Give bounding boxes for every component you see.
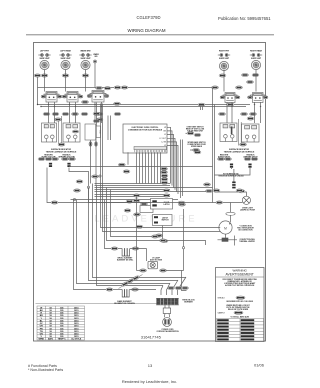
- wire label: [133, 199, 140, 202]
- wire label: [76, 180, 83, 183]
- svg-text:SURF UNIT: SURF UNIT: [80, 58, 91, 60]
- wire label: [194, 133, 201, 136]
- svg-text:CORDON D'ALIMENTATION: CORDON D'ALIMENTATION: [156, 330, 179, 333]
- wire right ind B return: [214, 168, 250, 175]
- wire gap drop right A: [238, 119, 240, 146]
- wire label: [244, 157, 251, 160]
- wire switch to indicator: [231, 102, 233, 123]
- wire staircase to bake: [74, 200, 107, 290]
- svg-text:LAMPE DU FOUR: LAMPE DU FOUR: [240, 209, 256, 212]
- warning sample oval: [234, 311, 243, 314]
- svg-text:LEFT REAR: LEFT REAR: [60, 50, 71, 53]
- wire label: [152, 235, 159, 238]
- EOC right pin labels: [159, 127, 166, 147]
- wire top right drop B: [202, 105, 204, 110]
- wire switch to indicator: [54, 102, 56, 123]
- wire staircase bus4: [97, 186, 164, 286]
- svg-text:SAMPLE: SAMPLE: [218, 312, 226, 315]
- wire label: [219, 74, 226, 77]
- diagram border frame: [34, 43, 266, 342]
- svg-text:UL STYLE: UL STYLE: [71, 338, 82, 340]
- wire fan to limiter: [225, 234, 227, 238]
- label power cord: [156, 329, 179, 333]
- connector ellipse symbol: [226, 212, 235, 215]
- svg-text:LEFT FRT: LEFT FRT: [40, 51, 50, 53]
- wire label: [175, 286, 182, 289]
- svg-text:* Non-Illustrated Parts: * Non-Illustrated Parts: [28, 368, 63, 372]
- wire label: [212, 86, 219, 89]
- surface unit control switch left front: [40, 60, 49, 69]
- wire label: [96, 118, 103, 121]
- wire label: [194, 151, 201, 154]
- wire label: [247, 80, 254, 83]
- wire staircase mid: [111, 190, 161, 237]
- label broil element: [117, 258, 134, 262]
- label red/orn right A: [218, 154, 231, 158]
- diagonal wire label: [132, 275, 140, 281]
- junction dots on buses: [37, 104, 261, 107]
- wire S3 left drop: [96, 103, 98, 127]
- wire from control switch: [85, 70, 87, 92]
- convection fan thermal limiter F1: [218, 236, 238, 246]
- wire label: [250, 112, 257, 115]
- svg-text:DE CONVECTION: DE CONVECTION: [238, 230, 253, 232]
- wire switch to indicator: [94, 102, 96, 123]
- wire label: [206, 189, 213, 192]
- label warm indicator: [93, 53, 99, 58]
- wire diag 4: [161, 286, 163, 296]
- wire label: [218, 157, 225, 160]
- label surface unit left front line2: [39, 58, 50, 60]
- wire label: [121, 86, 128, 89]
- wire label: [238, 190, 245, 193]
- label red/blk left B: [58, 154, 75, 158]
- wire label: [227, 103, 234, 106]
- label surface unit right rear outer line1: [250, 50, 262, 53]
- wire label: [41, 74, 48, 77]
- resistor R1 vertical: [96, 126, 100, 138]
- warning text block 1: [223, 279, 258, 287]
- warning serial oval: [236, 296, 245, 299]
- label speed bake switch: [187, 141, 206, 148]
- label latch switch: [161, 217, 169, 222]
- infinite switch S2: [62, 92, 83, 103]
- wire EOC harness drop: [151, 152, 153, 183]
- junction door latch net: [182, 247, 184, 249]
- connector right indicator: [230, 164, 233, 168]
- surface unit control switch right rear outer: [251, 60, 260, 69]
- wire latch net to lamp: [183, 249, 185, 271]
- wire label: [179, 203, 186, 206]
- wire label: [240, 143, 247, 146]
- indicator lamp oval inside box2: [72, 130, 78, 133]
- wire EOC pin stub: [167, 142, 177, 192]
- wire label: [204, 183, 211, 186]
- warning box outline: [216, 268, 265, 342]
- svg-text:13: 13: [148, 363, 153, 368]
- wire diag 3: [167, 283, 171, 295]
- wire switch to indicator: [69, 102, 71, 123]
- wire label: [82, 100, 89, 103]
- wire EOC pin stub: [167, 146, 178, 195]
- wire label: [247, 117, 254, 120]
- label oven vent switch: [186, 127, 205, 133]
- svg-text:M: M: [224, 227, 227, 231]
- wire bottom long run: [36, 303, 161, 305]
- wire label: [82, 74, 89, 77]
- svg-text:ELEMENT DE CUISSON: ELEMENT DE CUISSON: [114, 303, 135, 305]
- warning text block 2: [226, 305, 250, 311]
- warning table dark cells: [217, 319, 254, 340]
- header rule: [26, 34, 274, 36]
- svg-text:W: W: [164, 127, 166, 129]
- wire from control switch: [223, 70, 225, 92]
- surface unit control switch left rear: [61, 60, 70, 69]
- wire gap drop left B: [61, 116, 63, 146]
- indicator vertical strip inside box3: [231, 127, 233, 135]
- element symbol left front: [38, 54, 50, 57]
- wire vent oval stub: [186, 132, 188, 134]
- junction resistor net: [99, 175, 101, 177]
- element symbol left rear: [59, 54, 71, 57]
- wire label: [118, 163, 125, 166]
- svg-text:RIGHT FRT: RIGHT FRT: [219, 51, 230, 53]
- wire EOC pin stub: [167, 138, 175, 190]
- wire clock pin B: [95, 138, 97, 143]
- wire label: [160, 239, 167, 242]
- svg-text:Rendered by LeadVenture, Inc.: Rendered by LeadVenture, Inc.: [122, 379, 177, 384]
- wire label: [193, 148, 200, 151]
- wire switch to indicator: [48, 102, 50, 123]
- svg-text:TEMOIN LUMINEUX DE SURFACE: TEMOIN LUMINEUX DE SURFACE: [46, 150, 77, 153]
- svg-text:SURF UNIT: SURF UNIT: [39, 58, 50, 60]
- wire label: [178, 201, 185, 204]
- wire color table text: [38, 307, 81, 340]
- wire label: [161, 181, 168, 184]
- svg-text:Publication No: 5995457651: Publication No: 5995457651: [218, 16, 271, 21]
- wire label: [213, 189, 220, 192]
- label surface unit right front line1: [219, 51, 230, 53]
- convection fan motor M1: [219, 221, 232, 234]
- wire label: [236, 86, 243, 89]
- wire harness run: [95, 187, 213, 189]
- wire right drop A: [180, 140, 182, 199]
- wire label: [216, 201, 223, 204]
- warning text line 2: [231, 315, 250, 318]
- svg-text:SWITCH: SWITCH: [161, 220, 169, 222]
- connector left indicator B: [67, 163, 70, 167]
- wire label: [55, 118, 62, 121]
- wire label: [72, 112, 79, 115]
- svg-text:TEMP°C: TEMP°C: [58, 338, 67, 340]
- surface indicator light box left A: [42, 123, 57, 142]
- label surface unit right rear outer line2: [251, 58, 262, 60]
- wire staircase bus2: [89, 187, 179, 280]
- wire right main drop: [212, 88, 214, 203]
- svg-text:CGLEF379D: CGLEF379D: [137, 15, 161, 20]
- wire label: [114, 86, 121, 89]
- wire top right drop: [200, 105, 202, 110]
- wire gap drop left A: [58, 121, 60, 146]
- infinite switch S1: [41, 92, 62, 103]
- wire EOC pin stub: [167, 135, 174, 188]
- svg-text:LATCH: LATCH: [164, 203, 171, 206]
- power cord plug: [163, 318, 172, 327]
- wire label: [163, 194, 170, 197]
- wire label: [133, 194, 140, 197]
- label oven light: [240, 208, 256, 212]
- wire EOC harness drop: [145, 152, 147, 183]
- label hot surface indicator: [218, 173, 244, 178]
- wire from control switch: [65, 70, 67, 92]
- label surface indicator lights left: [46, 148, 77, 153]
- wire label: [69, 157, 76, 160]
- label surface indicator lights right: [224, 148, 255, 153]
- wire label: [161, 178, 168, 181]
- diagonal wire label: [121, 281, 129, 287]
- wire harness run: [95, 191, 213, 193]
- wire broil left stub: [118, 248, 122, 250]
- wire staircase bus1: [93, 184, 187, 278]
- wire oven light top feed: [214, 191, 238, 193]
- relay box K1: [140, 206, 153, 213]
- wire label: [161, 174, 168, 177]
- svg-text:ASSY IN OVEN: ASSY IN OVEN: [150, 258, 163, 261]
- warning box title: [226, 269, 254, 277]
- wire clock out A: [90, 146, 92, 183]
- wire label: [132, 247, 139, 250]
- svg-text:SURF UNIT: SURF UNIT: [251, 58, 262, 60]
- wire staircase broil left: [105, 200, 112, 249]
- wire indicator drop: [233, 169, 235, 182]
- svg-text:AWG: AWG: [48, 337, 53, 340]
- wire indicator link across: [69, 166, 213, 168]
- wire label: [81, 112, 88, 115]
- svg-text:DISCONNECT POWER BEFORE SERVIC: DISCONNECT POWER BEFORE SERVICING: [223, 279, 258, 281]
- wire label: [161, 239, 168, 242]
- wire convection feed upper: [103, 104, 221, 232]
- wire indicator return left: [47, 168, 152, 203]
- door latch switch box lower: [153, 215, 173, 226]
- label surface unit left front line1: [40, 51, 50, 53]
- wire stub right ind A: [231, 168, 233, 169]
- surface indicator light box right B: [242, 124, 260, 142]
- label convection fan: [237, 226, 254, 232]
- wire harness run: [95, 189, 171, 191]
- wire switch to indicator: [260, 102, 262, 123]
- wire staircase bus3: [77, 200, 171, 284]
- wire lamp right: [166, 270, 183, 272]
- wire ellipse to fan: [230, 215, 232, 222]
- wire label: [106, 288, 113, 291]
- warning text line: [226, 301, 254, 303]
- wire label: [52, 112, 59, 115]
- svg-text:SERIAL#: SERIAL#: [218, 297, 225, 300]
- wire diag 2: [172, 280, 178, 295]
- wire left edge drop: [37, 77, 39, 104]
- wire label: [160, 269, 167, 272]
- wire latch feed: [71, 199, 179, 201]
- wire EOC pin stub: [167, 127, 171, 183]
- wire EOC harness drop: [154, 152, 156, 183]
- wire indicator B return: [69, 168, 89, 188]
- svg-text:LEADVENTURE: LEADVENTURE: [94, 214, 197, 225]
- wire from control switch: [44, 70, 46, 92]
- wire broil to lamp area: [146, 249, 148, 262]
- wire lamp net down: [182, 271, 187, 291]
- wire label: [114, 102, 121, 105]
- wire latch net drop: [183, 209, 185, 247]
- wire EOC harness drop: [148, 152, 150, 183]
- wire to oven light top: [239, 192, 246, 196]
- wire label: [62, 112, 69, 115]
- wire switch to indicator: [254, 102, 256, 123]
- wire label: [182, 286, 189, 289]
- wire EOC pin stub: [167, 131, 172, 186]
- wire fan thermal feed: [107, 188, 206, 246]
- wire label: [92, 175, 99, 178]
- wire EOC harness drop: [157, 152, 159, 183]
- label surface unit right front line2: [219, 58, 230, 60]
- element symbol warm and serve: [79, 54, 91, 57]
- wire stub: [124, 164, 126, 166]
- warning box title rule: [216, 276, 265, 278]
- connector left indicator: [49, 163, 52, 167]
- wire clock out B: [95, 146, 97, 185]
- wire label: [43, 112, 50, 115]
- oval vertical pin B: [95, 142, 98, 147]
- wire oven light drop left: [88, 188, 90, 203]
- wire switch to indicator: [75, 102, 77, 123]
- wire label: [163, 189, 170, 192]
- wire label: [34, 74, 41, 77]
- wire label: [141, 202, 148, 205]
- label door latch: [164, 202, 171, 206]
- wire label: [168, 286, 175, 289]
- label surface unit warm and serve line2: [80, 58, 91, 60]
- label thermal limiter: [239, 238, 255, 243]
- wire label: [58, 143, 65, 146]
- svg-text:BORNIER: BORNIER: [184, 302, 193, 304]
- wire label: [156, 234, 163, 237]
- wire label: [104, 87, 111, 90]
- wire EOC harness drop: [142, 152, 144, 183]
- wire label: [93, 112, 100, 115]
- wire diag 1: [178, 277, 187, 295]
- svg-text:TEMOIN LUMINEUX DE SURFACE: TEMOIN LUMINEUX DE SURFACE: [224, 150, 255, 153]
- diagonal wire label: [127, 278, 135, 284]
- wire convection feed lower: [101, 104, 221, 228]
- wire label: [62, 74, 69, 77]
- wire label: [38, 157, 45, 160]
- svg-text:L1: L1: [164, 134, 166, 136]
- svg-text:RIGHT REAR: RIGHT REAR: [250, 50, 262, 53]
- wire EOC harness drop: [160, 152, 162, 183]
- label surface unit left rear line1: [60, 50, 71, 53]
- wire harness run: [95, 185, 171, 187]
- wire L1 bus: [38, 87, 213, 89]
- wire label: [126, 200, 133, 203]
- wire switch to indicator: [101, 102, 103, 123]
- wire speed bake stub: [190, 149, 193, 151]
- EOC pin header P1: [134, 147, 167, 153]
- clock box: [85, 124, 96, 140]
- svg-text:316417745: 316417745: [141, 335, 162, 340]
- surface unit control switch right front: [219, 61, 228, 70]
- wire oven light feed: [89, 202, 243, 204]
- wire label: [123, 170, 130, 173]
- element symbol right front: [218, 54, 230, 57]
- svg-text:COMMANDE DE FOUR ELECTRONIQUE: COMMANDE DE FOUR ELECTRONIQUE: [128, 128, 163, 131]
- wire label: [124, 209, 131, 212]
- wire label: [252, 73, 259, 76]
- wire drop to lamp: [136, 197, 138, 271]
- svg-text:GROUNDED WITH NO. 1/B LONKS: GROUNDED WITH NO. 1/B LONKS: [226, 301, 254, 303]
- svg-text:AVERTISSEMENT: AVERTISSEMENT: [226, 273, 254, 277]
- warning lower table: [217, 319, 264, 342]
- label surface unit warm and serve line1: [80, 50, 91, 53]
- label electronic oven control: [128, 127, 163, 131]
- wire label: [96, 86, 103, 89]
- wire clock pin A: [90, 140, 92, 142]
- label red/orn left A: [41, 154, 56, 158]
- wire label: [74, 189, 81, 192]
- wire label: [132, 288, 139, 291]
- svg-text:ELEMENT DE GRIL: ELEMENT DE GRIL: [117, 260, 134, 262]
- svg-text:WARM SRV: WARM SRV: [80, 50, 91, 53]
- label surface unit left rear line2: [60, 58, 71, 60]
- wire switch to indicator: [226, 102, 228, 123]
- svg-text:THERMAL LIMITER: THERMAL LIMITER: [239, 240, 255, 243]
- wire label: [134, 213, 141, 216]
- svg-text:WHERE REUTLINE LOCKOUT: WHERE REUTLINE LOCKOUT: [226, 305, 249, 307]
- dual infinite switch S3: [87, 91, 109, 103]
- door latch switch box: [151, 199, 173, 210]
- wire label: [242, 73, 249, 76]
- svg-text:01/06: 01/06: [254, 363, 265, 368]
- wire from control switch: [255, 70, 257, 92]
- svg-text:WIRE: WIRE: [38, 338, 44, 340]
- label oven lamp assembly: [150, 256, 163, 261]
- wire label: [161, 167, 168, 170]
- label bake element: [114, 300, 135, 305]
- surface indicator light box right A: [220, 123, 237, 142]
- wire label: [219, 112, 226, 115]
- wire label: [45, 157, 52, 160]
- wire label: [114, 112, 121, 115]
- infinite switch S4: [220, 93, 240, 103]
- wire label: [51, 201, 58, 204]
- terminal stack: [232, 182, 235, 189]
- junction left staircase: [73, 198, 75, 200]
- wire block to relief A: [164, 305, 166, 308]
- svg-text:SURF UNIT: SURF UNIT: [219, 58, 230, 60]
- bake element coil: [122, 290, 129, 298]
- wire label: [111, 247, 118, 250]
- wire EOC harness drop: [136, 152, 138, 183]
- wire N bus: [41, 106, 246, 108]
- wire label: [236, 189, 243, 192]
- broil element coil: [122, 249, 130, 257]
- svg-text:L2 OUT: L2 OUT: [159, 138, 166, 140]
- wire broil right: [130, 248, 147, 250]
- wire bake left stub: [113, 289, 122, 291]
- svg-text:L2: L2: [164, 145, 166, 147]
- wire label: [161, 171, 168, 174]
- element symbol right rear outer: [250, 54, 262, 57]
- wire label: [241, 112, 248, 115]
- label red/blk right B: [243, 154, 258, 158]
